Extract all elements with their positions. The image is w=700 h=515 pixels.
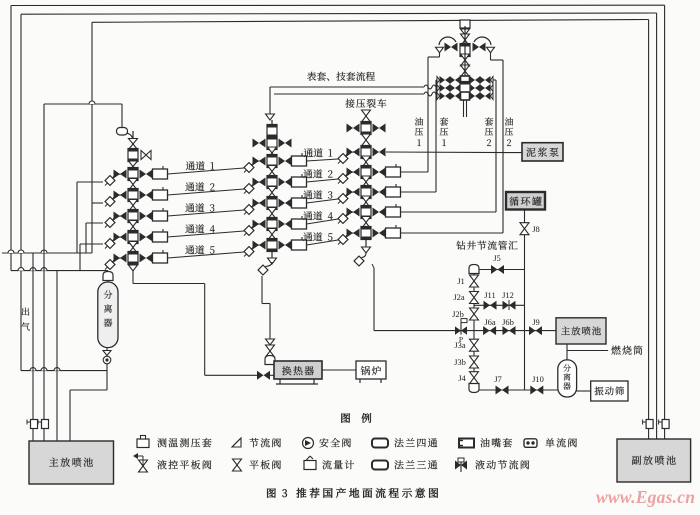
flat valve row2 third right: [373, 168, 380, 177]
cup fitting choke manifold top: [469, 265, 479, 274]
throttle valve left manifold top right: [141, 151, 146, 160]
gate valve between rows 1-2 left manifold: [129, 179, 138, 185]
wire J5 line: [479, 269, 525, 271]
gate valve heater west line: [257, 371, 264, 380]
wire tank drop: [524, 210, 526, 391]
gate valve J10: [530, 386, 537, 395]
flat valve row1 middle right: [279, 157, 286, 166]
hydraulic flat valve elbow row3 middle manifold: [244, 205, 254, 215]
flange left manifold top: [128, 149, 138, 162]
gate valve third manifold top: [362, 110, 371, 116]
casing head row3 flange: [461, 92, 470, 100]
flange tee row1 third manifold: [361, 146, 371, 159]
separator capsule (east): [558, 360, 577, 397]
flat valve row1 third right: [373, 148, 380, 157]
gate valve J6a: [483, 326, 490, 335]
node 油压2 label: [505, 117, 513, 125]
legend symbol 法兰三通: [372, 461, 388, 470]
tree umbrella arc left: [439, 37, 456, 45]
flat valve row2 third left: [347, 168, 354, 177]
flat valve row3 middle left: [253, 199, 260, 208]
svg-text:www.Egas.cn: www.Egas.cn: [596, 487, 695, 507]
heat exchanger box 换热器: [274, 361, 322, 379]
flat valve row4 left: [114, 233, 121, 242]
flange tee row1 left manifold: [128, 168, 138, 181]
wire channel 5 pipe (left set): [168, 252, 245, 258]
check valve on pit line 1: [31, 420, 38, 429]
wire flare line C right drop to aux pit: [648, 20, 650, 441]
casing head row1 valves right: [470, 76, 476, 84]
wire separator drain line: [106, 362, 108, 390]
svg-text:J3a: J3a: [454, 340, 466, 350]
wire J6 line: [459, 330, 556, 332]
aux blowout pit box 副放喷池: [617, 439, 691, 482]
boiler box 锅炉: [356, 361, 386, 379]
flange tee row5 middle manifold: [267, 239, 277, 252]
legend symbol 安全阀: [303, 438, 314, 449]
flange tee row2 third manifold: [361, 166, 371, 179]
wire channel 4 pipe (right set): [307, 219, 339, 224]
casing head row3 valves left: [450, 92, 456, 100]
wire casing1 riser: [435, 80, 437, 192]
legend label 安全阀: [319, 438, 328, 447]
wire channel 1 pipe (left set): [168, 168, 245, 174]
flange tee row5 third manifold: [361, 227, 371, 240]
hydraulic flat valve elbow row1 middle manifold: [244, 163, 254, 173]
arrow left manifold bottom: [129, 265, 138, 271]
wire pit to separator: [566, 344, 568, 360]
svg-text:J2b: J2b: [452, 309, 464, 319]
flat valve third top right: [373, 124, 380, 133]
hydraulic flat valve elbow row2 left manifold: [105, 197, 115, 207]
gate valve J9: [529, 326, 536, 335]
gate valve tree mid: [461, 54, 470, 60]
tree umbrella arc right: [474, 37, 491, 45]
flange tree crown: [460, 44, 470, 57]
flat valve row1 left: [114, 170, 121, 179]
svg-text:J6a: J6a: [484, 317, 496, 327]
gate valve J6b: [503, 326, 510, 335]
flange tee row3 middle manifold: [267, 197, 277, 210]
wire left manifold bottom run: [132, 271, 134, 284]
node 通道5 label (right set): [303, 232, 312, 241]
hydraulic flat valve elbow row4 left manifold: [105, 239, 115, 249]
svg-text:J6b: J6b: [502, 317, 514, 327]
hydraulic flat valve elbow row3 left manifold: [105, 218, 115, 228]
wire burner leader: [567, 350, 608, 352]
flat valve row3 left: [114, 212, 121, 221]
cup fitting heater feed: [265, 356, 275, 365]
svg-text:J10: J10: [532, 374, 544, 384]
flat valve row2 middle right: [279, 178, 286, 187]
choke sleeve row3 middle manifold: [292, 198, 307, 208]
gate valve middle manifold: [268, 147, 277, 153]
legend symbol 流量计: [304, 461, 316, 470]
circulation tank box 循环罐: [506, 192, 545, 210]
flange third manifold top: [361, 122, 371, 135]
arrow middle manifold bottom: [268, 258, 277, 264]
wing valve tree left: [445, 43, 452, 52]
wire channel 5 pipe (right set): [307, 240, 339, 245]
node 钻井节流管汇 label: [456, 241, 465, 250]
node 接压裂车 label: [345, 99, 354, 108]
hydraulic flat valve elbow row1 left manifold: [105, 176, 115, 186]
wire flowline riser tubing1: [427, 57, 429, 172]
wire gas-out header y253: [2, 252, 92, 254]
cup fitting separator inlet: [103, 272, 113, 281]
legend symbol 测温测压套: [137, 439, 149, 448]
hydraulic flat valve elbow row5 left manifold: [105, 260, 115, 270]
flat valve row4 third left: [347, 208, 354, 217]
flat valve middle top left: [253, 139, 260, 148]
wire flare line A top: [11, 4, 665, 6]
flange middle: [267, 137, 277, 150]
svg-text:J11: J11: [484, 290, 496, 300]
hydraulic flat valve elbow row1 third manifold: [338, 154, 348, 164]
wire row3 pipe to casing1 riser: [401, 191, 437, 193]
node 燃烧筒 label: [611, 346, 620, 355]
flat valve row2 right: [140, 191, 147, 200]
hydraulic flat valve elbow row3 third manifold: [338, 194, 348, 204]
wire left manifold top feed horizontal: [44, 103, 122, 105]
cap box tree top: [460, 20, 470, 28]
legend label 节流阀: [249, 438, 258, 447]
gate valve left manifold top: [129, 139, 138, 145]
choke sleeve row3 left manifold: [153, 211, 168, 221]
wire tubing2 riser: [502, 60, 504, 233]
choke sleeve row3 third manifold: [386, 187, 401, 197]
flat valve row2 middle left: [253, 178, 260, 187]
hydraulic flat valve elbow row5 middle manifold: [244, 247, 254, 257]
arrow heater feed: [266, 339, 275, 345]
choke sleeve row2 middle manifold: [292, 177, 307, 187]
wire row5 branch to separator: [107, 271, 109, 282]
flat valve middle top right: [279, 139, 286, 148]
node 图例 title: [341, 413, 350, 422]
wire casing flow line upper: [270, 86, 424, 88]
wire channel 2 pipe (right set): [307, 179, 339, 182]
gate valve J3a: [470, 339, 479, 345]
safety valve under separator: [106, 348, 108, 352]
svg-text:J3b: J3b: [454, 357, 466, 367]
legend label 单流阀: [545, 438, 554, 447]
gate valve between rows 3-4 third manifold: [362, 196, 371, 202]
gate valve third manifold upper: [362, 134, 371, 140]
hydraulic flat valve elbow row4 middle manifold: [244, 226, 254, 236]
flat valve row5 middle right: [279, 241, 286, 250]
legend label 油嘴套: [480, 438, 489, 447]
legend symbol 单流阀: [524, 439, 537, 448]
gate valve between rows 4-5 third manifold: [362, 217, 371, 223]
gate valve J1: [470, 275, 479, 281]
wire row2 left stub: [92, 202, 103, 204]
arrow into middle manifold: [266, 114, 275, 120]
flange tee row3 third manifold: [361, 186, 371, 199]
wire separator to shaker: [577, 390, 591, 392]
legend label 流量计: [322, 460, 331, 469]
node 分离器 text (east): [563, 364, 571, 371]
legend label 法兰三通: [394, 460, 403, 469]
legend symbol 节流阀: [232, 438, 241, 447]
arrow tree col 2: [461, 71, 470, 77]
casing head row2 flange: [460, 82, 470, 95]
gate valve between rows 3-4 left manifold: [129, 221, 138, 227]
check valve on pit line 2: [42, 420, 49, 429]
flat valve row4 third right: [373, 208, 380, 217]
legend label 液控平板阀: [157, 460, 166, 469]
flat valve row5 left: [114, 254, 121, 263]
separator capsule (west): [98, 282, 118, 348]
flange tee row5 left manifold: [128, 252, 138, 265]
wire heater feed drop: [261, 276, 263, 304]
wire flare line B top: [21, 13, 657, 14]
heat exchanger legs: [279, 379, 281, 384]
choke sleeve row4 left manifold: [153, 232, 168, 242]
wire row5 pipe to tubing2 riser: [401, 232, 504, 234]
flat valve row4 right: [140, 233, 147, 242]
wire casing2 takeoff: [493, 79, 496, 81]
wire tubing2 elbow: [490, 52, 492, 60]
wire choke manifold feed drop: [372, 264, 374, 268]
flat valve row4 middle left: [253, 220, 260, 229]
arrow third manifold bottom: [362, 247, 371, 253]
wire channel 4 pipe (left set): [168, 231, 245, 237]
wire pit line 1: [32, 253, 34, 441]
casing head row2 valves right: [470, 84, 476, 92]
svg-text:J5: J5: [493, 253, 501, 263]
wire heater to boiler: [322, 369, 356, 371]
hydraulic flat valve elbow row4 third manifold: [338, 214, 348, 224]
flat valve row1 right: [140, 170, 147, 179]
casing head row3 valves right: [470, 92, 476, 100]
flat valve row5 middle left: [253, 241, 260, 250]
wire flare line B right drop to aux pit: [656, 13, 658, 440]
wire row2 pipe to tubing1 riser: [401, 171, 429, 173]
wire channel 3 pipe (right set): [307, 199, 339, 203]
node 出气 label: [22, 308, 29, 316]
choke chain column: [473, 273, 475, 390]
middle manifold column: [271, 120, 273, 258]
choke sleeve row1 left manifold: [153, 169, 168, 179]
legend symbol 液控平板阀: [139, 460, 148, 466]
wire channel 3 pipe (left set): [168, 210, 245, 216]
flat valve row5 third right: [373, 229, 380, 238]
hydraulic flat valve elbow row2 middle manifold: [244, 184, 254, 194]
gate valve between rows 4-5 middle manifold: [268, 229, 277, 235]
svg-text:J12: J12: [502, 290, 514, 300]
node 通道5 label (left set): [185, 245, 194, 254]
gate valve J5: [491, 265, 498, 274]
node 通道3 label (left set): [185, 203, 194, 212]
wire casing-flow feed drop to middle manifold: [269, 87, 271, 114]
flat valve row1 third left: [347, 148, 354, 157]
heater branch elbow under middle manifold: [258, 265, 268, 275]
check valve on flare C: [646, 420, 653, 429]
main blowout pit box 主放喷池 (east): [556, 318, 606, 344]
legend symbol 法兰四通: [372, 439, 388, 448]
hydraulic choke valve J12: [503, 301, 510, 310]
casing head row2 valves left: [450, 84, 456, 92]
node 套压1 label: [440, 117, 448, 125]
choke sleeve row2 left manifold: [153, 190, 168, 200]
flat valve third top left: [347, 124, 354, 133]
gate valve J11: [484, 301, 491, 310]
check valve on flare A: [662, 420, 669, 429]
wire casing2 riser: [495, 80, 497, 212]
gate valve between rows 2-3 third manifold: [362, 176, 371, 182]
choke sleeve row5 left manifold: [153, 253, 168, 263]
flat valve row5 right: [140, 254, 147, 263]
legend label 法兰四通: [394, 438, 403, 447]
flat valve row5 third left: [347, 229, 354, 238]
wire flare A horizontal run y270.6: [11, 270, 108, 272]
gate valve between rows 4-5 left manifold: [129, 242, 138, 248]
arrow tree top: [461, 29, 470, 35]
gate valve J8: [520, 223, 529, 229]
node 通道1 label (right set): [304, 148, 313, 157]
hydraulic choke valve P: [455, 326, 461, 334]
node 通道2 label (left set): [185, 182, 194, 191]
gate valve between rows 2-3 middle manifold: [268, 187, 277, 193]
flat valve row3 third right: [373, 188, 380, 197]
casing head row1 valves left: [450, 76, 456, 84]
node 通道4 label (left set): [185, 224, 194, 233]
svg-text:J4: J4: [458, 373, 466, 383]
node 套压2 label: [485, 117, 493, 125]
wire channel 1 pipe (right set): [307, 159, 339, 161]
legend label 平板阀: [249, 460, 258, 469]
node 通道4 label (right set): [303, 211, 312, 220]
wire flare line B left drop: [20, 14, 22, 370]
flat valve row3 right: [140, 212, 147, 221]
legend symbol 液动节流阀: [455, 461, 461, 470]
legend label 液动节流阀: [475, 460, 484, 469]
flat valve row3 third left: [347, 188, 354, 197]
wire casing1 takeoff: [436, 79, 437, 81]
flat valve row4 middle right: [279, 220, 286, 229]
wing valve tree right: [473, 43, 480, 52]
choke sleeve row5 middle manifold: [292, 240, 307, 250]
wire row1 pipe to mud pump: [386, 151, 522, 154]
legend label 测温测压套: [157, 438, 166, 447]
flat valve row1 middle left: [253, 157, 260, 166]
svg-text:J1: J1: [457, 276, 465, 286]
caption 图3: [267, 488, 276, 497]
flange tee row1 middle manifold: [267, 155, 277, 168]
flange tee row4 middle manifold: [267, 218, 277, 231]
gate valve between rows 3-4 middle manifold: [268, 208, 277, 214]
wire channel 2 pipe (left set): [168, 189, 245, 195]
node 通道1 label (left set): [186, 161, 195, 170]
wire J11-J12 line: [474, 304, 525, 306]
node 通道3 label (right set): [303, 190, 312, 199]
casing head row1 flange: [461, 76, 470, 84]
shale shaker box 振动筛: [591, 381, 628, 401]
gate valve J4: [470, 372, 479, 378]
tree column: [464, 26, 466, 97]
choke sleeve row5 third manifold: [386, 228, 401, 238]
flange tee row4 left manifold: [128, 231, 138, 244]
cup fitting choke manifold bottom: [469, 384, 479, 393]
wire row3 left stub: [86, 222, 103, 224]
flange tee row3 left manifold: [128, 210, 138, 223]
node 分离器 text (west): [104, 290, 112, 298]
wellbore stub: [463, 100, 465, 117]
gate valve between rows 2-3 left manifold: [129, 200, 138, 206]
node 油压1 label: [415, 117, 423, 125]
gate valve tree upper: [461, 34, 470, 40]
choke sleeve row4 third manifold: [386, 207, 401, 217]
arrow tree col 1: [461, 65, 470, 71]
wire row4 left stub: [80, 243, 103, 245]
svg-text:J9: J9: [532, 317, 540, 327]
wire flare line A right drop to aux pit: [664, 5, 666, 440]
wire flare line A left drop: [10, 6, 12, 271]
third manifold column: [365, 110, 367, 247]
gate valve heater feed: [266, 345, 275, 351]
compensator lower: [424, 92, 436, 96]
node 通道2 label (right set): [303, 169, 312, 178]
choke sleeve row2 third manifold: [386, 167, 401, 177]
wire row1 left stub: [77, 181, 103, 183]
caption title: [296, 488, 306, 498]
gate valve between rows 1-2 third manifold: [362, 156, 371, 162]
wire J7-J10 line: [479, 389, 558, 391]
flat valve row2 left: [114, 191, 121, 200]
wire pit line 4: [69, 390, 71, 441]
hydraulic flat valve elbow row5 third manifold: [338, 235, 348, 245]
mud pump box 泥浆泵: [522, 143, 563, 161]
wire flare B horizontal run y370.6: [21, 370, 107, 372]
svg-text:J8: J8: [532, 224, 540, 234]
svg-text:J7: J7: [494, 374, 502, 384]
gate valve J7: [496, 386, 503, 395]
compensator upper: [424, 85, 436, 89]
hydraulic flat valve elbow row2 third manifold: [338, 174, 348, 184]
flange middle manifold top: [267, 125, 277, 138]
choke sleeve row1 middle manifold: [292, 156, 307, 166]
gate valve J2a: [470, 292, 479, 298]
wire pit line 2: [43, 104, 45, 441]
choke-manifold branch elbow under third manifold: [354, 256, 364, 266]
wire flare line C top: [92, 20, 649, 23]
legend symbol 平板阀: [233, 459, 242, 465]
left manifold column: [132, 131, 134, 268]
main blowout pit box 主放喷池 (west): [29, 441, 114, 484]
wire pit line 3: [56, 271, 58, 441]
flange tee row2 left manifold: [128, 189, 138, 202]
node 表套、技套流程 label: [307, 72, 316, 81]
boiler legs: [359, 379, 361, 383]
flat valve row3 middle right: [279, 199, 286, 208]
gate valve below: [129, 161, 138, 167]
legend symbol 油嘴套: [459, 439, 474, 448]
cap fitting on left manifold top: [121, 104, 123, 128]
svg-text:J2a: J2a: [453, 292, 465, 302]
gate valve J3b: [470, 356, 479, 362]
wire row4 pipe to casing2 riser: [401, 211, 497, 213]
flange tee row2 middle manifold: [267, 176, 277, 189]
flange tee row4 third manifold: [361, 206, 371, 219]
gate valve between rows 1-2 middle manifold: [268, 166, 277, 172]
wire casing flow line lower: [274, 93, 424, 95]
gate valve J2b: [470, 308, 479, 314]
choke sleeve row4 middle manifold: [292, 219, 307, 229]
wire tubing1 elbow: [439, 52, 441, 57]
wire flare line C left drop: [91, 22, 93, 253]
